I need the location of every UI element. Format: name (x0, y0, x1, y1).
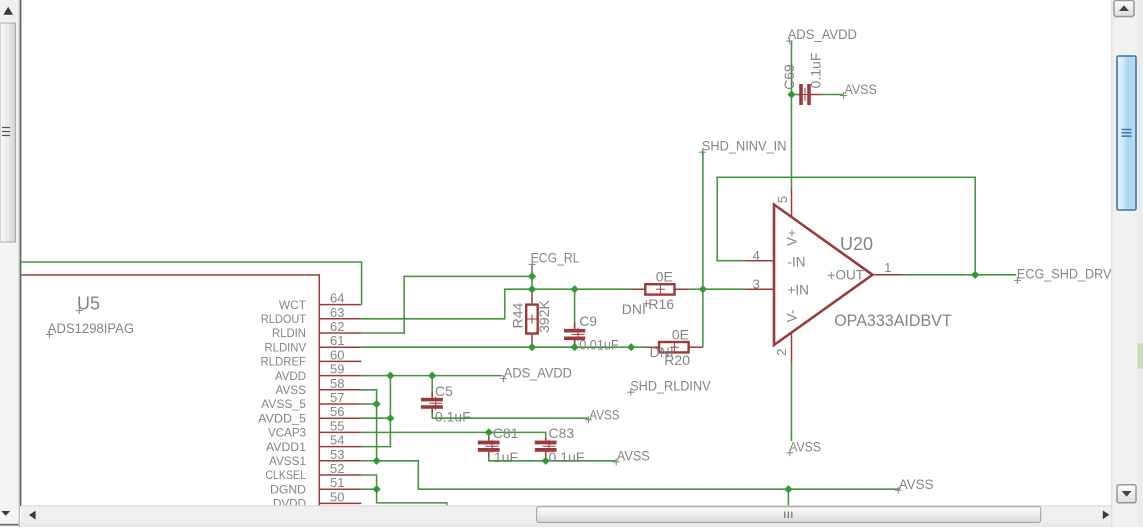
pin 3 +IN stub (745, 288, 773, 290)
svg-text:RLDOUT: RLDOUT (261, 312, 306, 326)
svg-text:-IN: -IN (788, 254, 806, 269)
svg-text:62: 62 (330, 319, 344, 334)
svg-text:51: 51 (330, 475, 344, 490)
svg-text:ADS_AVDD: ADS_AVDD (504, 365, 572, 380)
left scrollbar thumb (0, 23, 16, 242)
wire feedback loop OUT to -IN (717, 177, 975, 274)
pin 60 RLDREF stub (319, 360, 361, 362)
svg-text:ECG_SHD_DRV: ECG_SHD_DRV (1017, 266, 1112, 281)
svg-text:392K: 392K (536, 299, 552, 332)
pin 54 AVDD1 stub (319, 446, 361, 448)
horizontal scrollbar track (21, 506, 1114, 527)
svg-text:59: 59 (330, 362, 344, 377)
capacitor C69 (792, 84, 821, 105)
svg-text:64: 64 (330, 291, 344, 306)
wire OUT to ECG_SHD_DRV label (902, 274, 1016, 276)
svg-text:SHD_RLDINV: SHD_RLDINV (630, 378, 711, 393)
svg-text:2: 2 (774, 349, 789, 356)
horizontal scrollbar left arrow (29, 511, 36, 520)
svg-text:54: 54 (330, 433, 344, 448)
svg-text:SHD_NINV_IN: SHD_NINV_IN (702, 138, 787, 153)
svg-text:53: 53 (330, 447, 344, 462)
node C69 ADS_AVDD junction (787, 90, 795, 98)
resistor R16 (631, 284, 689, 294)
pin 5 V+ stub (791, 189, 793, 217)
svg-text:0E: 0E (672, 327, 689, 343)
svg-text:C81: C81 (493, 425, 519, 441)
node AVDD junction (386, 372, 394, 380)
svg-text:52: 52 (330, 461, 344, 476)
svg-text:AVSS1: AVSS1 (269, 454, 306, 468)
wire node to op-amp pin 3 (703, 288, 745, 290)
pin 62 RLDIN stub (319, 332, 361, 334)
svg-text:0.1uF: 0.1uF (808, 53, 824, 89)
wire RLDOUT net to R16 (361, 289, 630, 319)
wire AVSS1 pin 53 (361, 460, 376, 462)
pin 56 AVDD_5 stub (319, 417, 361, 419)
horizontal scrollbar thumb (537, 507, 1041, 523)
svg-text:RLDINV: RLDINV (265, 340, 307, 354)
pin 1 OUT stub (873, 274, 903, 276)
horizontal scrollbar right arrow (1103, 510, 1110, 519)
svg-text:ADS_AVDD: ADS_AVDD (788, 27, 857, 42)
wire AVSS pin 58 vertical chain (361, 390, 376, 461)
svg-text:ECG_RL: ECG_RL (531, 250, 580, 265)
pin 50 DVDD stub (319, 502, 361, 504)
svg-text:+IN: +IN (788, 283, 809, 298)
svg-text:AVSS: AVSS (276, 383, 307, 397)
svg-text:4: 4 (753, 248, 760, 263)
node C81 top junction (485, 428, 493, 436)
node AVSS bottom junction (784, 485, 792, 493)
capacitor C5 (421, 376, 443, 419)
left scrollbar track (0, 0, 18, 527)
svg-text:57: 57 (330, 390, 344, 405)
pin 4 -IN stub (745, 260, 773, 262)
node AVSS_5 junction (373, 400, 381, 408)
U20 origin cross (828, 272, 835, 279)
wire ECG_RL label drop (531, 264, 533, 289)
svg-text:AVSS: AVSS (789, 440, 821, 455)
node AVDD_5 junction (386, 414, 394, 422)
svg-text:RLDREF: RLDREF (261, 355, 307, 369)
svg-text:1: 1 (884, 260, 891, 275)
node ECG_RL R44 junction (528, 285, 536, 293)
svg-text:AVSS: AVSS (589, 407, 619, 422)
svg-text:C83: C83 (549, 425, 575, 441)
left scrollbar up arrow (3, 7, 13, 15)
wire WCT net to pin 64 (22, 262, 362, 305)
svg-text:R44: R44 (509, 302, 525, 328)
node DGND junction (373, 485, 381, 493)
svg-text:60: 60 (330, 347, 344, 362)
svg-text:C5: C5 (435, 383, 453, 399)
wire pin 2 to AVSS label (791, 363, 793, 442)
ADS1298IPAG origin cross (46, 331, 53, 338)
svg-text:R16: R16 (648, 296, 674, 312)
pin 57 AVSS_5 stub (319, 403, 361, 405)
pin 58 AVSS stub (319, 389, 361, 391)
resistor R20 (645, 342, 703, 352)
svg-text:C9: C9 (579, 313, 597, 329)
svg-text:61: 61 (330, 333, 344, 348)
svg-text:ADS1298IPAG: ADS1298IPAG (48, 321, 134, 336)
wire RLDINV net to R20 (361, 346, 645, 348)
node pin3 R16 junction (699, 285, 707, 293)
node C9 top junction (571, 285, 579, 293)
svg-text:V+: V+ (785, 229, 800, 246)
wire AVDD_5 pin 56 (361, 417, 390, 419)
pin 59 AVDD stub (319, 375, 361, 377)
left scrollbar down arrow (1, 511, 10, 516)
wire R16 to node (689, 288, 703, 290)
svg-text:AVSS: AVSS (617, 448, 650, 463)
svg-text:56: 56 (330, 404, 344, 419)
capacitor C83 (535, 437, 557, 457)
svg-text:DGND: DGND (270, 482, 306, 496)
pin 52 CLKSEL stub (319, 474, 361, 476)
svg-text:AVDD_5: AVDD_5 (258, 411, 306, 425)
wire AVSS net drop at bottom (787, 489, 789, 505)
capacitor C81 (478, 437, 500, 457)
svg-text:VCAP3: VCAP3 (268, 426, 306, 440)
pin 61 RLDINV stub (319, 346, 361, 348)
node OUT feedback junction (971, 271, 979, 279)
svg-text:0E: 0E (656, 269, 673, 285)
svg-text:U20: U20 (840, 234, 873, 254)
svg-text:0.1uF: 0.1uF (549, 449, 585, 465)
left scrollbar bottom border (0, 524, 19, 526)
pin 53 AVSS1 stub (319, 460, 361, 462)
svg-text:AVSS: AVSS (899, 477, 934, 492)
wire AVDD net to ADS_AVDD label (361, 375, 502, 377)
svg-text:AVDD1: AVDD1 (266, 440, 306, 454)
svg-text:1uF: 1uF (494, 449, 518, 465)
op-amp U20 triangle (774, 205, 873, 346)
capacitor C9 (564, 289, 585, 347)
node SHD_RLDINV junction (627, 343, 635, 351)
node C9 bottom junction (571, 343, 579, 351)
rightmost panel strip (1138, 0, 1143, 527)
IC U5 ADS1298IPAG body (22, 275, 320, 527)
node C5 top junction (428, 372, 436, 380)
wire AVSS_5 pin 57 (361, 403, 376, 405)
pin 2 V- stub (791, 333, 793, 363)
svg-text:RLDIN: RLDIN (272, 326, 306, 340)
svg-text:DNI: DNI (622, 301, 646, 317)
svg-text:AVDD: AVDD (275, 369, 306, 383)
wire C5 to AVSS label (432, 417, 588, 419)
svg-text:3: 3 (753, 277, 760, 292)
svg-text:AVSS_5: AVSS_5 (261, 397, 306, 411)
wire ADS_AVDD to pin 5 (791, 41, 793, 189)
svg-text:DNI: DNI (650, 344, 674, 360)
svg-text:OUT: OUT (836, 267, 865, 282)
svg-text:0.01uF: 0.01uF (579, 336, 619, 352)
node R44 bottom junction (528, 343, 536, 351)
svg-text:V-: V- (785, 310, 800, 323)
svg-text:AVSS: AVSS (845, 82, 877, 97)
pin 63 RLDOUT stub (319, 318, 361, 320)
rightmost panel green marker (1138, 344, 1143, 369)
resistor R44 (526, 289, 538, 347)
node C83 bottom junction (542, 457, 550, 465)
pin 55 VCAP3 stub (319, 431, 361, 433)
wire VCAP3 net to C81 C83 tops (361, 432, 545, 436)
R16 name origin cross (643, 300, 650, 307)
canvas left border (18, 0, 20, 527)
svg-text:63: 63 (330, 305, 344, 320)
svg-text:WCT: WCT (279, 298, 307, 312)
node RLDIN ECG_RL junction (528, 272, 536, 280)
svg-text:55: 55 (330, 418, 344, 433)
svg-text:58: 58 (330, 376, 344, 391)
right scrollbar track (1112, 0, 1138, 527)
svg-text:0.1uF: 0.1uF (435, 408, 471, 424)
U5 origin cross (76, 307, 83, 314)
right scrollbar up button (1114, 1, 1134, 17)
right scrollbar blue thumb (1117, 56, 1136, 210)
wire AVSS1 net long run (377, 461, 900, 489)
svg-text:OPA333AIDBVT: OPA333AIDBVT (834, 312, 952, 330)
wire RLDIN net to ECG_RL node (361, 276, 532, 333)
svg-text:CLKSEL: CLKSEL (265, 468, 306, 482)
wire DGND pin 51 (361, 488, 376, 490)
pin 51 DGND stub (319, 488, 361, 490)
svg-text:5: 5 (775, 196, 790, 203)
wire C81 top stub (488, 432, 490, 436)
svg-text:50: 50 (330, 489, 344, 504)
right scrollbar down button (1117, 485, 1136, 503)
wire AVDD1 to AVDD vertical (361, 376, 390, 447)
node AVSS1 junction (373, 457, 381, 465)
wire SHD_NINV_IN to R20 vertical (702, 151, 704, 348)
pin 64 WCT stub (319, 304, 361, 306)
wire C69 to AVSS label (821, 94, 843, 96)
wire C81 bottom to AVSS row (489, 457, 616, 461)
wire CLKSEL DGND net (361, 475, 446, 506)
svg-text:C69: C69 (781, 64, 797, 90)
wire C83 bottom stub (545, 457, 547, 461)
